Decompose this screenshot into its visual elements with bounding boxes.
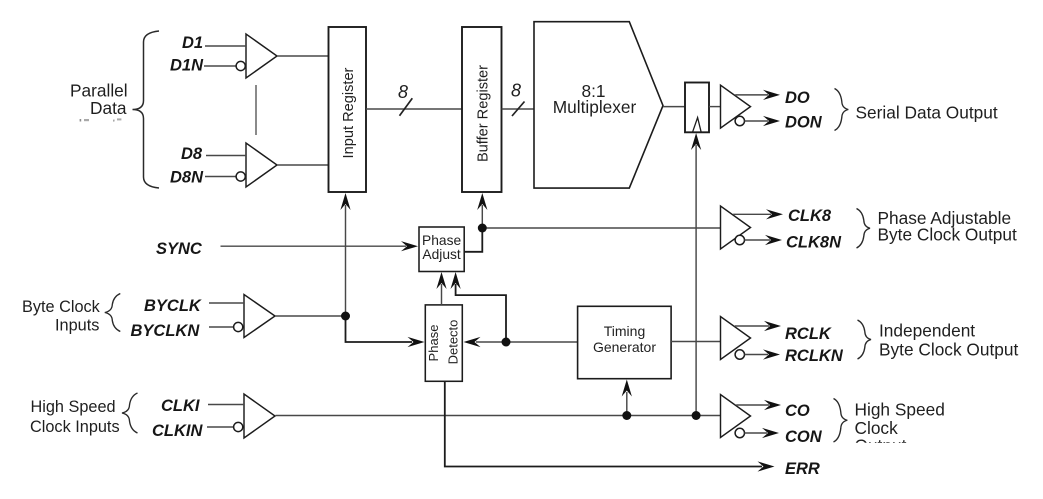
inversion bubble D8/D8NN	[236, 172, 245, 181]
label CO	[785, 402, 810, 420]
block Phase Detecto	[425, 305, 462, 381]
wire CO/CON complement output	[745, 428, 780, 438]
label CON	[785, 428, 823, 446]
wire junction up to buffer register clock	[477, 193, 487, 228]
svg-text:CLK8: CLK8	[788, 207, 832, 225]
flip-flop output register	[685, 83, 709, 133]
svg-text:D1N: D1N	[170, 57, 204, 75]
junction phase adjust node	[478, 224, 487, 233]
label Serial Data Output	[856, 103, 998, 123]
wire junction to CLK8 buffer	[482, 227, 720, 229]
erased Output text remnant	[855, 436, 907, 456]
wire ERR output	[445, 381, 775, 471]
wire D8 buffer output	[277, 164, 329, 166]
svg-text:Multiplexer: Multiplexer	[553, 97, 637, 117]
svg-text:Generator: Generator	[593, 339, 656, 355]
wire phase detector to phase adjust (left)	[436, 272, 446, 305]
label D1N	[170, 57, 204, 75]
inversion bubble DO/DON complement	[735, 116, 744, 125]
block Phase Adjust	[419, 227, 464, 272]
svg-text:High Speed: High Speed	[855, 400, 945, 420]
output buffer DO/DON	[721, 85, 751, 128]
label DON	[785, 114, 823, 132]
label CLK8N	[786, 234, 842, 252]
wire phase adjust output to junction	[464, 228, 482, 252]
svg-text:D8N: D8N	[170, 169, 204, 187]
wire byte clock up to input register clock	[340, 193, 350, 316]
svg-text:DON: DON	[785, 114, 823, 132]
label SYNC	[156, 240, 203, 258]
label Parallel Data	[70, 81, 128, 118]
input buffer BYCLK/BYCLKN	[244, 295, 275, 338]
block Timing Generator	[578, 306, 672, 378]
junction byte clock node	[341, 312, 350, 321]
wire BYCLK buffer output	[276, 315, 346, 317]
svg-text:ERR: ERR	[785, 460, 820, 478]
label RCLK	[785, 325, 832, 343]
wire timing generator to RCLK buffer	[671, 341, 720, 343]
label RCLKN	[785, 347, 844, 365]
erased Inputs text remnant	[78, 115, 125, 135]
flip-flop clock wedge	[693, 118, 702, 133]
junction timing feedback node	[502, 338, 511, 347]
input buffer D8/D8N	[246, 143, 277, 187]
label Independent Byte Clock Output	[879, 320, 1018, 359]
wire D1/D1N positive input	[205, 45, 246, 47]
svg-text:Timing: Timing	[604, 323, 646, 339]
svg-text:D1: D1	[182, 34, 203, 52]
svg-text:CLKIN: CLKIN	[152, 422, 203, 440]
label Phase Adjustable Byte Clock Output	[878, 208, 1017, 244]
wire CLK8/CLK8N complement output	[745, 235, 783, 245]
svg-text:BYCLK: BYCLK	[144, 297, 202, 315]
junction timing generator clock node	[622, 411, 631, 420]
svg-text:Inputs: Inputs	[55, 316, 99, 334]
svg-text:RCLK: RCLK	[785, 325, 832, 343]
label D8	[181, 145, 203, 163]
wire RCLK/RCLKN complement output	[745, 349, 781, 359]
svg-text:Inputs: Inputs	[78, 115, 125, 135]
bus slash (second)	[512, 102, 525, 117]
inversion bubble D1/D1NN	[236, 61, 245, 70]
wire timing generator to phase detector	[464, 337, 578, 347]
svg-text:Clock Inputs: Clock Inputs	[30, 418, 120, 436]
brace byte clock inputs	[105, 294, 121, 332]
inversion bubble CO/CON complement	[735, 428, 744, 437]
svg-text:Adjust: Adjust	[422, 247, 461, 262]
inversion bubble CLKI/CLKINN	[234, 422, 243, 431]
wire multiplexer output to flip-flop	[663, 106, 685, 108]
input buffer CLKI/CLKIN	[244, 394, 275, 438]
svg-text:D8: D8	[181, 145, 203, 163]
brace serial data output	[835, 89, 849, 131]
svg-text:Detecto: Detecto	[446, 320, 461, 365]
svg-text:RCLKN: RCLKN	[785, 347, 844, 365]
wire CLKI/CLKIN positive input	[208, 404, 244, 406]
svg-text:Serial Data Output: Serial Data Output	[856, 103, 998, 123]
svg-text:Byte Clock: Byte Clock	[22, 298, 101, 316]
svg-text:8: 8	[398, 82, 408, 102]
label ERR	[785, 460, 820, 478]
wire CLKI/CLKIN negative input	[207, 426, 234, 428]
inversion bubble BYCLK/BYCLKNN	[234, 322, 243, 331]
inversion bubble RCLK/RCLKN complement	[735, 350, 744, 359]
wire high speed clock line	[276, 415, 721, 417]
junction flip-flop clock node	[692, 411, 701, 420]
label High Speed Clock Inputs	[30, 398, 120, 436]
svg-text:Byte Clock Output: Byte Clock Output	[878, 225, 1017, 245]
brace high speed clock inputs	[122, 393, 138, 433]
wire timing feedback to phase adjust (right)	[451, 272, 507, 342]
label D1	[182, 34, 203, 52]
wire D1 buffer output	[277, 55, 329, 57]
brace parallel data inputs	[133, 31, 160, 188]
wire CO/CON true output	[736, 400, 781, 410]
register Input Register	[329, 27, 367, 192]
label D8N	[170, 169, 204, 187]
label Byte Clock Inputs	[22, 298, 101, 335]
svg-text:DO: DO	[785, 89, 810, 107]
svg-text:Data: Data	[90, 98, 127, 118]
label CLK8	[788, 207, 832, 225]
svg-text:Phase: Phase	[426, 325, 441, 362]
svg-text:BYCLKN: BYCLKN	[131, 322, 201, 340]
svg-text:CLK8N: CLK8N	[786, 234, 842, 252]
wire BYCLK/BYCLKN positive input	[209, 302, 244, 304]
output buffer CLK8/CLK8N	[721, 206, 751, 249]
brace independent byte clock output	[858, 320, 872, 359]
label DO	[785, 89, 810, 107]
wire CLK8/CLK8N true output	[733, 209, 783, 219]
multiplexer U1 8:1	[534, 22, 663, 188]
label BYCLKN	[131, 322, 201, 340]
wire BYCLK/BYCLKN negative input	[209, 326, 234, 328]
wire D8/D8N positive input	[206, 155, 246, 157]
svg-text:Phase: Phase	[422, 233, 461, 248]
brace phase adjustable byte clock output	[857, 209, 871, 249]
svg-text:CO: CO	[785, 402, 810, 420]
wire clock up to flip-flop	[691, 133, 701, 416]
svg-text:CON: CON	[785, 428, 823, 446]
input buffer D1/D1N	[246, 34, 277, 78]
svg-text:Output: Output	[855, 436, 907, 456]
wire RCLK/RCLKN true output	[735, 321, 781, 331]
wire DO/DON true output	[735, 90, 780, 100]
bus width label 8	[398, 82, 408, 102]
brace high speed clock output	[834, 399, 848, 443]
wire flip-flop to DO buffer	[709, 106, 721, 108]
label BYCLK	[144, 297, 202, 315]
wire SYNC to phase adjust	[221, 241, 419, 251]
svg-text:SYNC: SYNC	[156, 240, 203, 258]
output buffer CO/CON	[721, 395, 751, 438]
svg-text:Byte Clock Output: Byte Clock Output	[879, 339, 1018, 359]
output buffer RCLK/RCLKN	[721, 317, 751, 360]
svg-text:High Speed: High Speed	[31, 398, 116, 416]
inversion bubble CLK8/CLK8N complement	[735, 235, 744, 244]
wire byte clock down to phase detector	[346, 316, 425, 347]
label CLKIN	[152, 422, 203, 440]
svg-text:CLKI: CLKI	[161, 397, 200, 415]
wire DO/DON complement output	[745, 116, 781, 126]
label CLKI	[161, 397, 200, 415]
wire clock up to timing generator	[622, 380, 632, 416]
bus slash	[400, 98, 413, 116]
wire D8/D8N negative input	[205, 176, 236, 178]
svg-text:8: 8	[511, 81, 521, 101]
svg-text:Input Register: Input Register	[341, 67, 357, 158]
svg-text:Buffer Register: Buffer Register	[476, 65, 492, 162]
ellipsis line between data buffers	[255, 85, 257, 135]
bus width label 8 (second)	[511, 81, 521, 101]
label High Speed Clock	[855, 400, 945, 438]
svg-text:Clock: Clock	[855, 418, 899, 438]
wire 8-bit bus input register to buffer register	[366, 108, 462, 110]
register Buffer Register	[462, 27, 502, 192]
wire 8-bit bus buffer register to multiplexer	[502, 108, 535, 110]
wire D1/D1N negative input	[204, 65, 236, 67]
svg-text:Independent: Independent	[879, 320, 975, 340]
